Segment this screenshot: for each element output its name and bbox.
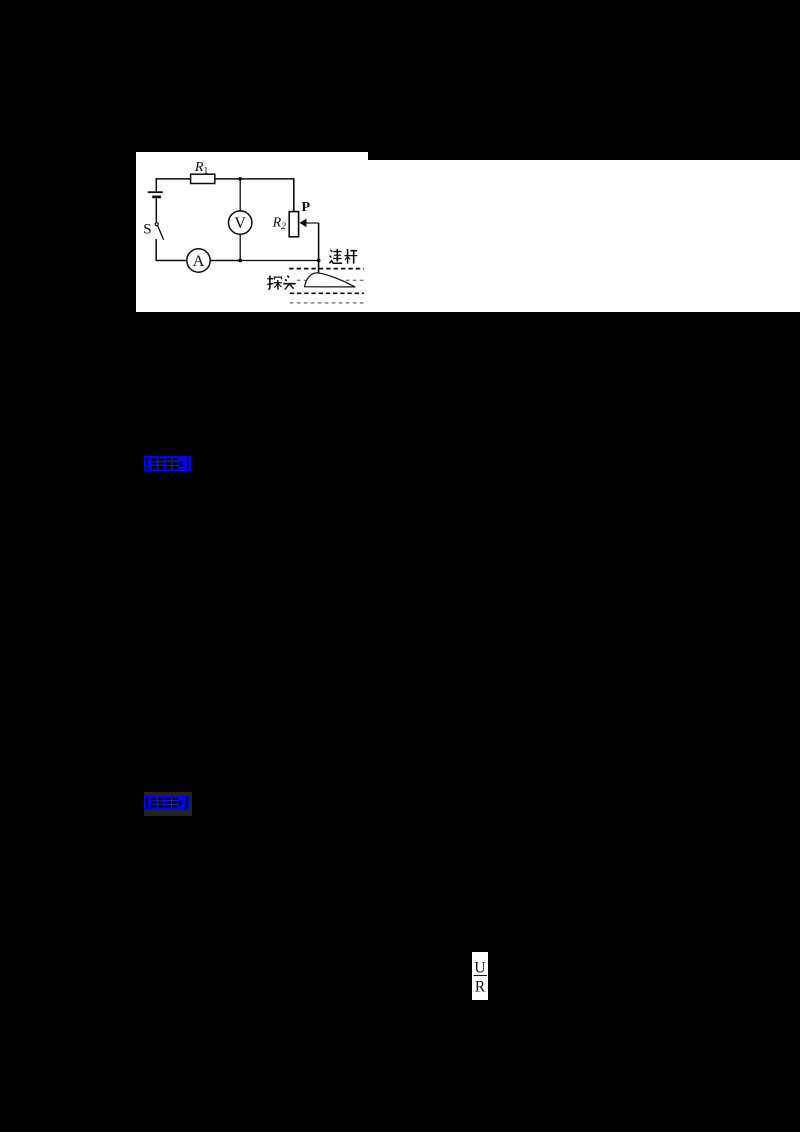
wire: wiper riser down to connecting rod node bbox=[317, 223, 319, 261]
white band right of figure bbox=[368, 160, 800, 312]
wire: ammeter to bottom junction bbox=[210, 259, 240, 261]
highlighted tag 1 【答案】 bbox=[144, 456, 191, 471]
node: connecting rod junction dot bbox=[316, 258, 320, 262]
switch S pivot circle bbox=[155, 222, 158, 225]
wire: battery positive lead to R1 (top-left horizontal) bbox=[155, 178, 190, 180]
fraction U/R text bbox=[472, 952, 488, 1001]
svg-text:R: R bbox=[475, 978, 486, 995]
svg-text:P: P bbox=[301, 200, 310, 215]
svg-text:S: S bbox=[143, 221, 151, 237]
voltmeter V bbox=[228, 211, 251, 234]
label 连杆 (hand-drawn strokes) bbox=[329, 249, 357, 264]
wire: bottom junction to connecting-rod node bbox=[240, 259, 318, 261]
wire: R1 to corner of R2 branch (top horizontal) bbox=[214, 178, 293, 180]
label P bbox=[301, 200, 310, 215]
svg-text:U: U bbox=[474, 959, 485, 976]
label S bbox=[143, 221, 151, 237]
label 探头 (hand-drawn strokes) bbox=[267, 275, 295, 289]
connecting rod down to probe float bbox=[317, 260, 319, 273]
svg-text:A: A bbox=[192, 253, 204, 270]
wire: voltmeter top lead bbox=[239, 179, 241, 211]
resistor R1 bbox=[190, 174, 214, 183]
ammeter A bbox=[186, 248, 209, 271]
wire: left vertical to battery bbox=[155, 178, 157, 191]
svg-text:V: V bbox=[234, 215, 246, 232]
wire: voltmeter bottom lead bbox=[239, 234, 241, 260]
figure panel white background bbox=[136, 152, 368, 312]
highlighted tag 2 【解析】 blue highlight bbox=[144, 796, 190, 809]
water surface dashed line 4 (thin) bbox=[289, 302, 363, 304]
wire: right branch down to R2 top bbox=[292, 178, 294, 211]
label R2 bbox=[271, 215, 286, 231]
probe float body bbox=[304, 272, 354, 286]
water surface dashed line 3 bbox=[289, 292, 363, 294]
water surface dashed line 1 bbox=[289, 267, 364, 269]
node: top junction dot bbox=[238, 177, 242, 181]
water surface dashed line 2 (thin) bbox=[296, 279, 363, 281]
wire: battery to switch bbox=[155, 198, 157, 223]
rheostat wiper arrowhead bbox=[299, 218, 306, 227]
label R1 bbox=[194, 160, 209, 176]
rheostat wiper arrow shaft bbox=[305, 222, 319, 224]
battery short plate bbox=[152, 195, 161, 198]
svg-text:R1: R1 bbox=[194, 160, 209, 176]
label V bbox=[234, 215, 246, 232]
svg-text:R2: R2 bbox=[271, 215, 286, 231]
circuit schematic svg bbox=[136, 152, 369, 313]
fraction U/R white patch bbox=[472, 952, 488, 1001]
node: bottom junction dot (voltmeter tap) bbox=[238, 258, 242, 262]
rheostat R2 body bbox=[289, 211, 298, 236]
battery long plate bbox=[147, 191, 162, 193]
switch S blade bbox=[157, 225, 163, 239]
wire: switch to bottom-left corner to ammeter bbox=[156, 239, 186, 260]
label A bbox=[192, 253, 204, 270]
highlighted tag 2 【解析】 dark backing box bbox=[144, 792, 192, 815]
